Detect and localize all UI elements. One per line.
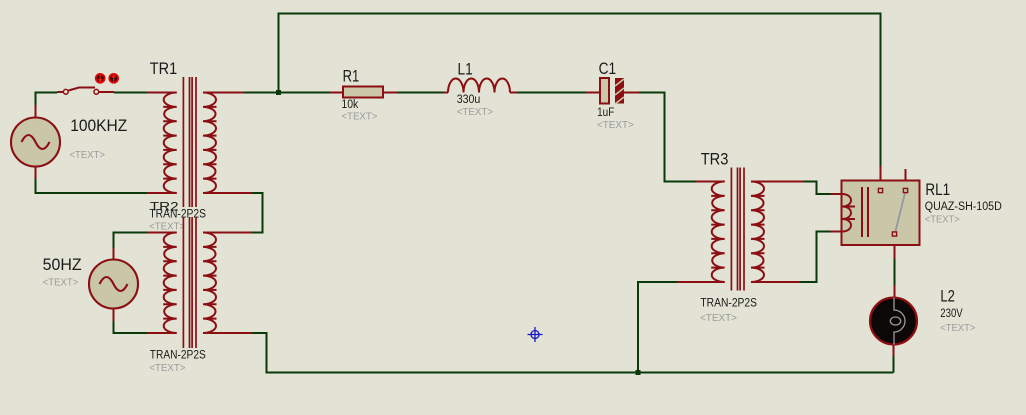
- source V2 top pin: [113, 248, 115, 260]
- svg-text:<TEXT>: <TEXT>: [149, 222, 185, 233]
- switch left lead: [57, 91, 64, 93]
- TR1 secondary top lead: [203, 92, 244, 94]
- wire C1 to TR3 primary top: [639, 93, 696, 182]
- lamp L2 body: [870, 298, 917, 345]
- svg-text:TRAN-2P2S: TRAN-2P2S: [149, 209, 206, 221]
- transformer TR2 core: [182, 217, 184, 348]
- wire R1 to L1: [397, 92, 443, 94]
- lamp L2 bottom lead: [893, 345, 895, 356]
- capacitor C1 right lead: [624, 92, 639, 94]
- transformer TR2 secondary winding: [203, 233, 216, 334]
- wire TR1 secondary bottom to TR2 secondary top: [252, 193, 263, 233]
- wire TR3 secondary bottom to relay coil: [800, 232, 831, 283]
- relay RL1 common pin: [878, 188, 882, 192]
- relay pin NO stub: [905, 169, 907, 188]
- switch SW1 lever: [69, 88, 96, 91]
- svg-text:<TEXT>: <TEXT>: [925, 215, 960, 226]
- transformer TR1 core: [182, 77, 184, 207]
- wire V1 bottom to TR1 primary bottom: [36, 179, 148, 193]
- wire TR3 secondary top to relay coil: [804, 182, 831, 195]
- svg-text:<TEXT>: <TEXT>: [43, 278, 79, 289]
- source V1 bottom pin: [35, 167, 37, 180]
- svg-text:330u: 330u: [457, 94, 481, 106]
- TR1 primary top lead: [147, 92, 177, 94]
- junction node A: [276, 90, 281, 95]
- capacitor C1 left plate: [600, 78, 609, 104]
- wire switch to TR1 primary top: [114, 92, 147, 94]
- svg-text:<TEXT>: <TEXT>: [341, 112, 377, 123]
- svg-text:L1: L1: [458, 61, 473, 79]
- AC source V1 100KHZ: [11, 118, 60, 167]
- svg-text:<TEXT>: <TEXT>: [700, 313, 737, 324]
- relay RL1 coil: [843, 194, 852, 232]
- relay RL1 core: [861, 187, 863, 237]
- TR1 primary bottom lead: [147, 192, 177, 194]
- TR2 primary top lead: [147, 232, 177, 234]
- svg-text:QUAZ-SH-105D: QUAZ-SH-105D: [925, 201, 1002, 213]
- source V1 top pin: [35, 105, 37, 118]
- transformer TR3 secondary winding: [751, 182, 764, 283]
- wire V1 top to switch: [36, 93, 58, 106]
- relay RL1 contact blade: [896, 193, 906, 231]
- switch SW1 toggle marker down-arrow: [96, 74, 105, 83]
- svg-text:<TEXT>: <TEXT>: [597, 120, 634, 131]
- wire lamp bottom to rail: [893, 356, 895, 373]
- TR1 secondary bottom lead: [203, 192, 252, 194]
- inductor L1 right lead: [510, 92, 517, 94]
- capacitor C1 left lead: [586, 92, 600, 94]
- relay pin pole stub: [894, 237, 896, 260]
- relay RL1 pole pin: [892, 232, 896, 236]
- svg-text:R1: R1: [343, 68, 360, 86]
- transformer TR1 primary winding: [164, 93, 177, 194]
- svg-text:<TEXT>: <TEXT>: [940, 323, 975, 334]
- svg-text:<TEXT>: <TEXT>: [70, 150, 106, 161]
- svg-text:<TEXT>: <TEXT>: [457, 107, 494, 118]
- inductor L1 winding: [448, 79, 510, 93]
- switch right lead: [99, 91, 114, 93]
- wire top frame from node A to relay pin: [279, 14, 881, 167]
- lamp L2 top lead: [894, 285, 896, 297]
- svg-text:230V: 230V: [940, 308, 963, 320]
- junction node B on bottom rail: [636, 370, 641, 375]
- TR3 secondary bottom lead: [751, 281, 800, 283]
- resistor R1 body: [343, 87, 383, 98]
- relay RL1 NO pin: [903, 188, 907, 192]
- svg-text:TR1: TR1: [150, 60, 177, 78]
- switch SW1 left terminal: [63, 89, 68, 94]
- transformer TR1 secondary winding: [203, 93, 216, 194]
- svg-text:50HZ: 50HZ: [43, 256, 82, 274]
- AC source V2 50HZ: [89, 260, 138, 309]
- svg-text:1uF: 1uF: [597, 107, 614, 119]
- wire relay pole to lamp: [894, 259, 896, 285]
- transformer TR2 primary winding: [164, 233, 177, 334]
- TR2 secondary top lead: [203, 232, 252, 234]
- TR3 secondary top lead: [751, 181, 804, 183]
- inductor L1 left lead: [443, 92, 448, 94]
- relay RL1 body: [842, 181, 920, 246]
- svg-text:L2: L2: [940, 288, 955, 306]
- svg-text:TR3: TR3: [701, 150, 729, 168]
- wire TR3 primary bottom to node B: [638, 282, 677, 373]
- wire bottom rail TR2 to lamp: [252, 333, 894, 373]
- wire L1 to C1: [517, 92, 586, 94]
- relay pin common stub: [880, 166, 882, 188]
- capacitor C1 right plate hatched: [615, 78, 624, 104]
- TR3 primary bottom lead: [677, 281, 725, 283]
- origin marker: [528, 327, 543, 342]
- TR3 primary top lead: [696, 181, 725, 183]
- TR2 primary bottom lead: [147, 332, 177, 334]
- switch SW1 right terminal: [94, 89, 99, 94]
- switch SW1 toggle marker up-arrow: [109, 74, 118, 83]
- wire V2 bottom to TR2 primary bottom: [114, 321, 148, 333]
- transformer TR3 primary winding: [712, 182, 725, 283]
- wire TR1 secondary top to R1 through node A: [244, 92, 330, 94]
- resistor R1 left lead: [330, 92, 343, 94]
- transformer TR3 core: [730, 168, 732, 291]
- source V2 bottom pin: [113, 309, 115, 322]
- svg-text:100KHZ: 100KHZ: [70, 117, 127, 135]
- svg-text:C1: C1: [599, 60, 617, 78]
- svg-text:TRAN-2P2S: TRAN-2P2S: [700, 298, 757, 310]
- svg-text:RL1: RL1: [925, 181, 950, 199]
- wire V2 top to TR2 primary top: [114, 233, 148, 249]
- TR2 secondary bottom lead: [203, 332, 252, 334]
- svg-text:<TEXT>: <TEXT>: [149, 363, 185, 374]
- relay coil top lead: [831, 193, 843, 195]
- relay coil bottom lead: [831, 231, 843, 233]
- resistor R1 right lead: [383, 92, 397, 94]
- svg-text:TRAN-2P2S: TRAN-2P2S: [150, 349, 206, 361]
- svg-text:10k: 10k: [341, 99, 358, 111]
